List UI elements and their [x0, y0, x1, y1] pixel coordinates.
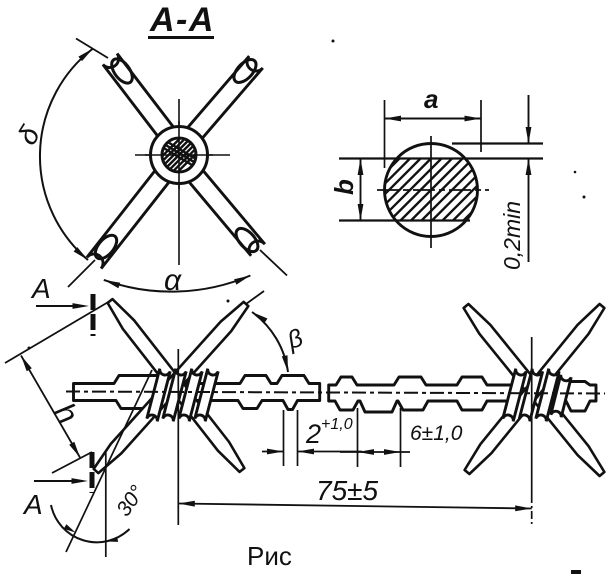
30deg arc	[51, 505, 130, 542]
svg-text:α: α	[164, 264, 182, 297]
hatching of flattened wire section	[327, 159, 536, 221]
dim 2 line/arrows	[262, 451, 284, 453]
left coil loop 1	[147, 369, 170, 422]
dimension h extension line bottom	[52, 452, 92, 473]
left coil loop 4	[195, 369, 218, 422]
stamped tip oval upper-left	[108, 55, 137, 86]
centerline horizontal (cross-section)	[377, 189, 489, 191]
left barb strip 1 (upper-left to lower-right)	[108, 299, 245, 472]
wire right segment	[329, 377, 596, 412]
section arrow top	[36, 305, 84, 307]
stamped tip oval lower-right	[232, 225, 262, 256]
right barb vertical extension line	[531, 337, 533, 495]
corner mark	[571, 570, 581, 574]
wire left segment	[74, 376, 320, 410]
right barb strip 1 (upper-left to lower-right)	[464, 304, 605, 476]
dim 6 line/arrows	[340, 451, 410, 453]
left barb vertical extension line	[177, 349, 179, 525]
dim 6 extension lines	[357, 408, 359, 467]
dimension a extension lines	[384, 100, 386, 168]
barb strip upper-right (section)	[181, 56, 263, 147]
dim 2 extension lines	[283, 410, 285, 466]
flat bottom line	[339, 219, 470, 221]
wire cross-section circle (hatched)	[162, 138, 196, 172]
dimension h extension line top	[5, 301, 110, 363]
right barb strip 2 (upper-right to lower-left)	[465, 304, 605, 474]
30deg slanted line	[66, 370, 152, 552]
svg-text:b: b	[329, 179, 359, 195]
left barb strip 2 (upper-right to lower-left)	[94, 302, 249, 473]
svg-text:0,2min: 0,2min	[499, 201, 525, 270]
svg-text:A-A: A-A	[149, 1, 215, 39]
30deg vertical line	[105, 452, 107, 557]
angle alpha arc	[104, 276, 251, 292]
dim 75 line	[178, 504, 531, 509]
svg-text:А: А	[22, 489, 43, 520]
right coil loop 1	[503, 369, 526, 422]
stamped tip oval lower-left	[91, 231, 120, 262]
svg-text:+1,0: +1,0	[321, 416, 353, 433]
hatching of wire core	[143, 135, 214, 175]
dimension 0,2min line	[528, 95, 530, 144]
top tangent reference line	[452, 142, 543, 144]
right coil loop 4	[551, 375, 571, 418]
section trace top	[91, 294, 96, 336]
beta arc	[252, 312, 288, 372]
svg-text:А: А	[30, 273, 51, 304]
centerline cross redrawn	[145, 154, 213, 156]
wire centerline dash-dot	[66, 392, 605, 394]
flat top line	[339, 157, 543, 159]
extension line from lower-left strip tip	[68, 260, 95, 287]
left coil loop 3	[179, 369, 202, 422]
dimension b line	[360, 159, 362, 221]
section trace bottom	[90, 452, 95, 493]
centerline horizontal (section A-A)	[135, 154, 230, 156]
svg-text:6±1,0: 6±1,0	[410, 422, 463, 445]
centerline vertical (cross-section)	[430, 136, 432, 248]
angle delta arc	[40, 49, 93, 261]
barb strip lower-right (section)	[183, 163, 265, 256]
section arrow bottom	[34, 480, 83, 482]
extension line from lower-right strip tip	[260, 250, 287, 276]
stamped tip oval upper-right	[230, 56, 260, 87]
right coil loop 2	[519, 369, 542, 422]
svg-text:75±5: 75±5	[316, 475, 379, 506]
right coil loop 3	[536, 369, 559, 422]
svg-text:2: 2	[305, 419, 321, 449]
barb strip lower-left (section)	[87, 164, 174, 268]
left coil loop 2	[163, 369, 186, 422]
dimension a line	[385, 118, 482, 120]
svg-text:a: a	[424, 84, 438, 114]
centerline vertical (section A-A)	[178, 99, 180, 265]
dimension h line	[21, 356, 80, 458]
specks	[332, 40, 335, 43]
beta extension line	[246, 291, 264, 304]
extension line from upper-left strip tip	[76, 39, 108, 59]
barb wrap loop outline	[151, 127, 208, 184]
barb strip upper-left (section)	[103, 54, 179, 146]
svg-text:Рис: Рис	[247, 541, 292, 571]
wire cross-section circle	[385, 144, 478, 237]
